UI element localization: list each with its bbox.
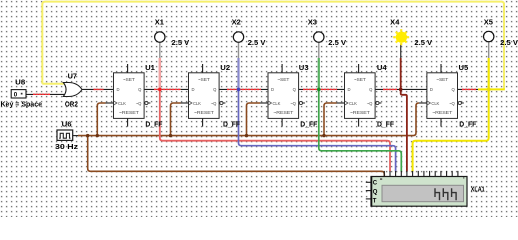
svg-text:2.5 V: 2.5 V (328, 38, 346, 47)
svg-text:OR2: OR2 (65, 100, 78, 109)
wire clock riser U5 (419, 102, 427, 104)
wire U2 Q to U3 D (219, 88, 268, 90)
svg-text:Key = Space: Key = Space (1, 99, 43, 108)
flip-flop U3 (268, 63, 318, 128)
probe X1 (155, 17, 190, 47)
svg-text:~Q: ~Q (290, 101, 296, 106)
probe X5 (484, 17, 518, 47)
svg-text:D_FF: D_FF (145, 119, 162, 128)
flip-flop U4 (345, 63, 395, 128)
svg-text:CLK: CLK (431, 101, 439, 106)
wire clock riser U2 (171, 103, 181, 136)
probe X4 lit (390, 17, 432, 47)
wire U8 to OR2 (26, 93, 67, 95)
wire clock riser U4 (324, 103, 337, 136)
svg-text:U1: U1 (145, 63, 155, 72)
or-gate U7 OR2 (63, 71, 82, 108)
wire clock riser U3 (247, 103, 261, 136)
flip-flop U2 (189, 63, 241, 128)
svg-text:2.5 V: 2.5 V (500, 38, 518, 47)
svg-text:CLK: CLK (349, 101, 357, 106)
svg-text:30 Hz: 30 Hz (55, 142, 78, 151)
svg-text:D_FF: D_FF (300, 119, 317, 128)
svg-text:X1: X1 (155, 17, 164, 26)
svg-text:X5: X5 (484, 17, 493, 26)
junction Q1 (158, 88, 162, 92)
probe X3 (308, 17, 346, 47)
clock source U6 30 Hz (55, 119, 78, 150)
flip-flop U1 (114, 63, 163, 128)
svg-text:2.5 V: 2.5 V (172, 38, 190, 47)
junction clock bus at analyzer branch (86, 134, 89, 137)
svg-text:T: T (373, 198, 377, 204)
wire yellow feedback top rail (42, 2, 504, 90)
wire yellow OR input horizontal (42, 83, 66, 85)
junction Q4 (399, 88, 403, 92)
svg-text:~Q: ~Q (449, 101, 455, 106)
svg-text:X2: X2 (232, 17, 241, 26)
junction Q2 (237, 88, 241, 92)
svg-text:D: D (430, 87, 433, 92)
svg-text:~RESET: ~RESET (194, 110, 215, 115)
wire clock riser U1 (97, 103, 105, 136)
svg-text:U5: U5 (459, 63, 469, 72)
wire OR2 output to U1 D (82, 88, 114, 90)
svg-text:~SET: ~SET (354, 77, 367, 82)
svg-text:~RESET: ~RESET (350, 110, 371, 115)
probe X2 (232, 17, 266, 47)
wire U6 output pin (73, 135, 79, 137)
svg-text:~SET: ~SET (277, 77, 290, 82)
svg-text:Q: Q (373, 189, 378, 195)
svg-text:~RESET: ~RESET (119, 110, 140, 115)
wire clock bus brown horizontal (78, 103, 419, 136)
svg-text:U4: U4 (377, 63, 388, 72)
svg-text:CLK: CLK (193, 101, 201, 106)
junction clock bus at U3 riser (245, 134, 248, 137)
svg-text:U8: U8 (15, 78, 25, 87)
net Q5 yellow to analyzer (488, 42, 490, 59)
svg-text:C: C (373, 180, 378, 186)
svg-text:CLK: CLK (273, 101, 281, 106)
svg-text:~Q: ~Q (211, 101, 217, 106)
svg-text:U6: U6 (62, 119, 72, 128)
svg-text:0: 0 (14, 91, 18, 98)
wire Q5 yellow to feedback (478, 88, 505, 90)
svg-text:~SET: ~SET (123, 77, 136, 82)
svg-text:CLK: CLK (118, 101, 126, 106)
svg-text:D_FF: D_FF (377, 119, 394, 128)
svg-text:2.5 V: 2.5 V (414, 38, 432, 47)
svg-text:U2: U2 (220, 63, 230, 72)
switch U8 digital constant (1, 78, 43, 109)
junction clock bus at U4 riser (322, 134, 325, 137)
svg-text:XLA1: XLA1 (471, 185, 485, 194)
svg-text:D: D (348, 87, 351, 92)
junction clock bus at U1 riser (96, 134, 99, 137)
wire U1 Q to U2 D (144, 88, 188, 90)
svg-text:~RESET: ~RESET (432, 110, 453, 115)
svg-text:X4: X4 (390, 17, 400, 26)
svg-text:~Q: ~Q (136, 101, 142, 106)
wire U5 Q output (458, 88, 481, 90)
wire clock branch down to analyzer (88, 136, 385, 177)
junction Q5 (487, 88, 491, 92)
svg-text:~SET: ~SET (198, 77, 211, 82)
net Q2 blue (238, 42, 240, 58)
svg-text:U3: U3 (299, 63, 309, 72)
svg-text:~RESET: ~RESET (273, 110, 294, 115)
wire U4 Q to U5 D (375, 88, 427, 90)
net Q1 red: probe stem and run to analyzer (159, 42, 161, 58)
svg-text:D: D (192, 87, 195, 92)
svg-text:D: D (271, 87, 274, 92)
flip-flop U5 (427, 63, 477, 128)
svg-text:2.5 V: 2.5 V (248, 38, 266, 47)
logic analyzer XLA1 (366, 171, 485, 206)
svg-text:~SET: ~SET (436, 77, 449, 82)
net Q4 maroon (400, 44, 402, 58)
junction clock bus at U2 riser (169, 134, 172, 137)
svg-text:~Q: ~Q (367, 101, 373, 106)
svg-text:U7: U7 (68, 71, 77, 80)
net Q3 green (318, 42, 320, 58)
junction Q3 (317, 88, 321, 92)
svg-text:D_FF: D_FF (459, 119, 476, 128)
svg-text:D: D (117, 87, 120, 92)
wire U3 Q to U4 D (299, 88, 345, 90)
svg-text:D_FF: D_FF (223, 119, 240, 128)
svg-text:X3: X3 (308, 17, 317, 26)
